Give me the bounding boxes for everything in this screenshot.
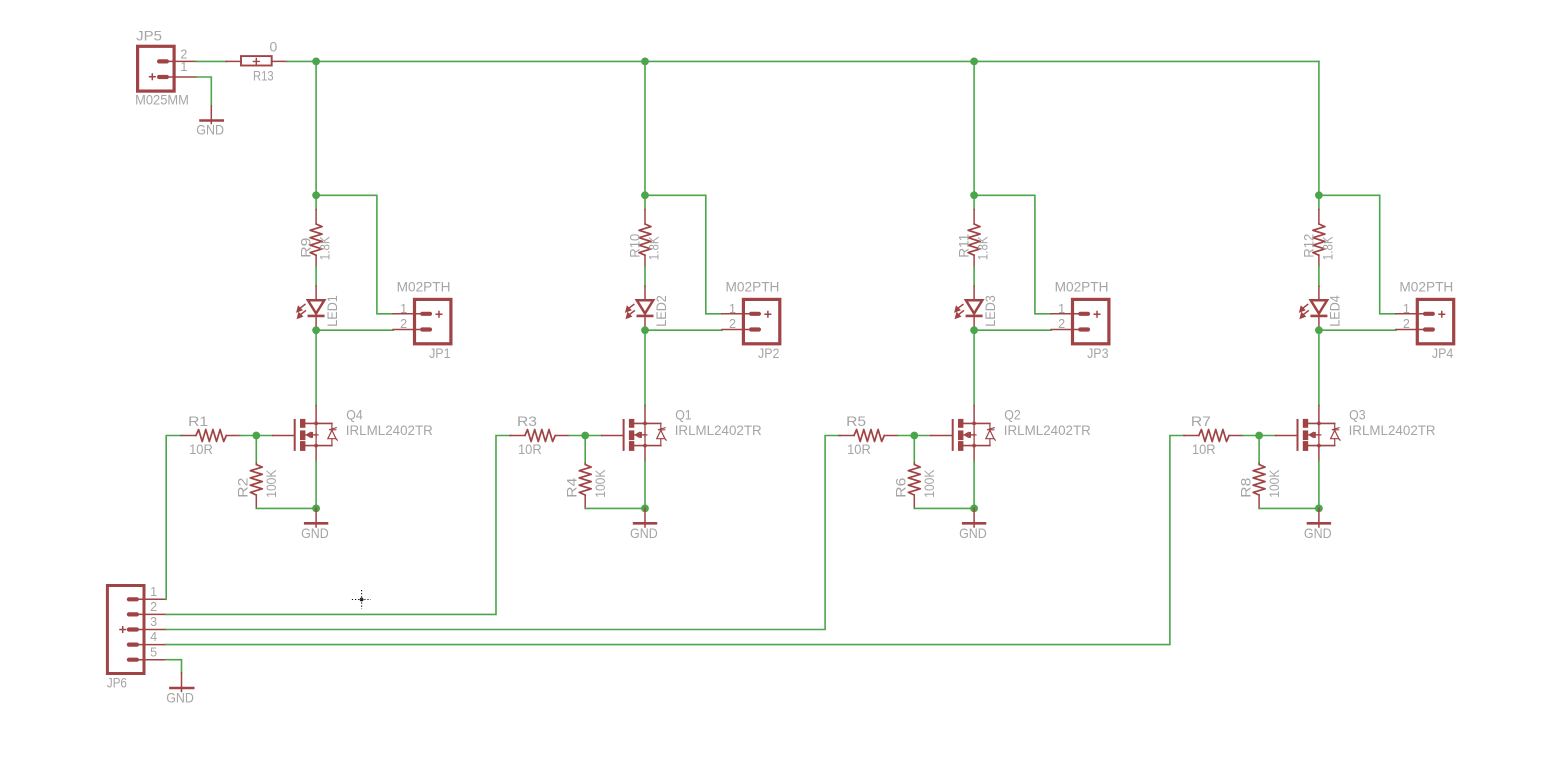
svg-text:2: 2	[150, 600, 157, 614]
svg-text:10R: 10R	[189, 441, 213, 457]
connector JP2 (M02PTH)	[722, 299, 780, 343]
wire R7 to gate node	[1243, 435, 1260, 437]
wire R11 to LED3	[973, 267, 975, 287]
wire R3 to gate node	[569, 435, 586, 437]
gate lead of Q3	[1276, 435, 1297, 437]
svg-text:2: 2	[180, 47, 187, 61]
wire JP6 pin4 to R7 (channel 4 gate net)	[166, 436, 1185, 645]
junction source/GND node of Q1	[641, 505, 649, 513]
svg-text:LED3: LED3	[982, 295, 998, 327]
ground symbol GND (Q3)	[1307, 522, 1331, 525]
wire LED3 cathode to Q2 drain	[973, 330, 975, 405]
drain lead of Q3	[1318, 406, 1320, 424]
wire R4 to source/GND node	[585, 507, 645, 509]
wire Q3 source to GND	[1318, 461, 1320, 508]
wire gate node down to R4	[584, 436, 586, 463]
svg-text:1: 1	[1058, 302, 1065, 316]
resistor R11 (1.8K)	[968, 210, 980, 267]
svg-text:R10: R10	[627, 234, 643, 258]
LED LED3	[955, 286, 983, 330]
resistor R1 (10R)	[181, 430, 240, 442]
resistor R6 (100K)	[908, 463, 920, 509]
svg-text:R1: R1	[188, 413, 208, 429]
svg-text:R9: R9	[298, 237, 314, 257]
svg-text:JP3: JP3	[1087, 345, 1109, 361]
wire Q2 source to GND	[973, 461, 975, 508]
svg-text:GND: GND	[196, 122, 224, 138]
wire JP6 pin2 to R3 (channel 2 gate net)	[166, 436, 511, 615]
svg-text:R4: R4	[563, 477, 579, 497]
wire gate node to Q1 gate	[585, 435, 602, 437]
resistor R12 (1.8K)	[1313, 210, 1325, 267]
svg-text:10R: 10R	[518, 441, 542, 457]
wire bus to R12 (channel LED4)	[1318, 61, 1320, 209]
drain lead of Q2	[973, 406, 975, 424]
svg-text:Q3: Q3	[1349, 406, 1366, 422]
junction on bus at LED3 channel	[970, 58, 978, 66]
GND lead under Q1	[644, 508, 646, 527]
junction node LED1 anode net	[312, 191, 320, 199]
ground symbol GND (Q4)	[304, 522, 328, 525]
resistor R13 leads	[226, 60, 240, 62]
source lead of Q2	[973, 446, 975, 461]
svg-text:2: 2	[400, 317, 407, 331]
svg-text:3: 3	[150, 615, 157, 629]
wire R8 to source/GND node	[1259, 507, 1319, 509]
svg-text:1.8K: 1.8K	[975, 236, 991, 260]
wire branch to JP1 pin1	[316, 195, 393, 313]
LED LED4	[1300, 286, 1328, 330]
transistor Q1 (IRLML2402TR)	[623, 419, 667, 451]
svg-text:GND: GND	[1304, 525, 1332, 541]
wire gate node down to R2	[255, 436, 257, 463]
resistor R2 (100K)	[250, 463, 262, 509]
GND lead under Q2	[973, 508, 975, 527]
LED LED1	[297, 286, 325, 330]
gate lead of Q4	[273, 435, 294, 437]
junction on bus at LED1 channel	[312, 58, 320, 66]
junction on bus at LED2 channel	[641, 58, 649, 66]
wire R5 to gate node	[898, 435, 915, 437]
GND lead under Q3	[1318, 508, 1320, 527]
svg-text:2: 2	[1403, 317, 1410, 331]
svg-text:JP4: JP4	[1432, 345, 1454, 361]
svg-text:2: 2	[729, 317, 736, 331]
svg-text:LED4: LED4	[1327, 295, 1343, 327]
svg-text:1: 1	[400, 302, 407, 316]
svg-text:R6: R6	[893, 477, 909, 497]
cursor crosshair	[352, 590, 371, 609]
wire R6 to source/GND node	[914, 507, 974, 509]
svg-text:M02PTH: M02PTH	[726, 279, 780, 295]
svg-text:R8: R8	[1237, 477, 1253, 497]
svg-text:GND: GND	[166, 690, 194, 706]
wire LED2 cathode to Q1 drain	[644, 330, 646, 405]
svg-text:JP1: JP1	[429, 345, 451, 361]
resistor R9 (1.8K)	[310, 210, 322, 267]
junction node LED4 anode net	[1315, 191, 1323, 199]
GND lead under JP5	[210, 106, 212, 124]
wire branch to JP2 pin1	[645, 195, 722, 313]
junction gate node of Q3	[1255, 432, 1263, 440]
connector JP5 (M025MM)	[138, 46, 197, 91]
wire branch to JP4 pin1	[1319, 195, 1396, 313]
svg-text:JP6: JP6	[107, 674, 127, 690]
svg-text:M02PTH: M02PTH	[397, 279, 451, 295]
svg-text:LED1: LED1	[324, 295, 340, 327]
junction node LED4 cathode net	[1315, 326, 1323, 334]
svg-text:Q4: Q4	[346, 406, 363, 422]
wire R12 to LED4	[1318, 267, 1320, 287]
svg-text:R7: R7	[1191, 413, 1211, 429]
connector JP1 (M02PTH)	[393, 299, 451, 343]
wire R1 to gate node	[240, 435, 256, 437]
transistor Q3 (IRLML2402TR)	[1297, 419, 1341, 451]
wire top power bus	[287, 60, 1319, 62]
svg-text:Q1: Q1	[675, 406, 692, 422]
svg-text:100K: 100K	[1266, 469, 1282, 498]
junction gate node of Q1	[581, 432, 589, 440]
ground symbol GND (JP5)	[199, 119, 224, 122]
ground symbol GND (Q2)	[962, 522, 986, 525]
junction source/GND node of Q4	[312, 505, 320, 513]
wire LED3 cathode to JP3 pin2	[974, 329, 1051, 331]
svg-text:IRLML2402TR: IRLML2402TR	[1349, 422, 1436, 438]
svg-text:1.8K: 1.8K	[317, 236, 333, 260]
wire bus to R10 (channel LED2)	[644, 61, 646, 209]
junction gate node of Q4	[252, 432, 260, 440]
junction node LED3 cathode net	[970, 326, 978, 334]
drain lead of Q4	[315, 406, 317, 424]
wire gate node to Q2 gate	[914, 435, 931, 437]
wire bus to R11 (channel LED3)	[973, 61, 975, 209]
transistor Q4 (IRLML2402TR)	[294, 419, 338, 451]
svg-text:100K: 100K	[263, 469, 279, 498]
svg-text:IRLML2402TR: IRLML2402TR	[675, 422, 762, 438]
wire gate node to Q4 gate	[256, 435, 273, 437]
wire JP6 pin5 to GND	[166, 660, 182, 673]
wire LED1 cathode to Q4 drain	[315, 330, 317, 405]
source lead of Q3	[1318, 446, 1320, 461]
svg-text:R11: R11	[956, 234, 972, 258]
svg-text:4: 4	[150, 630, 157, 644]
svg-text:R2: R2	[235, 477, 251, 497]
svg-text:0: 0	[270, 38, 278, 54]
wire gate node down to R8	[1258, 436, 1260, 463]
svg-text:100K: 100K	[921, 469, 937, 498]
wire bus to R9 (channel LED1)	[315, 61, 317, 209]
wire R10 to LED2	[644, 267, 646, 287]
svg-text:GND: GND	[301, 525, 329, 541]
source lead of Q1	[644, 446, 646, 461]
svg-text:100K: 100K	[592, 469, 608, 498]
connector JP6 (5-pin header)	[107, 586, 165, 674]
svg-text:R5: R5	[846, 413, 866, 429]
resistor R4 (100K)	[579, 463, 591, 509]
svg-text:GND: GND	[630, 525, 658, 541]
svg-text:GND: GND	[959, 525, 987, 541]
wire LED4 cathode to Q3 drain	[1318, 330, 1320, 405]
connector JP4 (M02PTH)	[1396, 299, 1454, 343]
source lead of Q4	[315, 446, 317, 461]
svg-text:JP5: JP5	[136, 28, 162, 44]
LED LED2	[626, 286, 654, 330]
resistor R5 (10R)	[839, 430, 898, 442]
svg-text:M02PTH: M02PTH	[1055, 279, 1109, 295]
svg-text:Q2: Q2	[1004, 406, 1021, 422]
junction source/GND node of Q3	[1315, 505, 1323, 513]
wire gate node down to R6	[913, 436, 915, 463]
GND lead under JP6	[181, 673, 183, 692]
junction gate node of Q2	[910, 432, 918, 440]
svg-text:10R: 10R	[847, 441, 871, 457]
wire LED1 cathode to JP1 pin2	[316, 329, 393, 331]
connector JP3 (M02PTH)	[1051, 299, 1109, 343]
svg-text:IRLML2402TR: IRLML2402TR	[1004, 422, 1091, 438]
wire JP5 pin1 to GND	[196, 77, 211, 106]
wire Q4 source to GND	[315, 461, 317, 508]
svg-text:1.8K: 1.8K	[646, 236, 662, 260]
svg-text:1: 1	[180, 60, 187, 74]
resistor R13 (0 ohm, box symbol)	[241, 56, 272, 65]
svg-text:2: 2	[1058, 317, 1065, 331]
wire JP6 pin3 to R5 (channel 3 gate net)	[166, 436, 840, 630]
wire R2 to source/GND node	[256, 507, 316, 509]
junction node LED1 cathode net	[312, 326, 320, 334]
wire R9 to LED1	[315, 267, 317, 287]
resistor R7 (10R)	[1184, 430, 1243, 442]
resistor R10 (1.8K)	[639, 210, 651, 267]
junction node LED3 anode net	[970, 191, 978, 199]
svg-text:10R: 10R	[1192, 441, 1216, 457]
wire JP6 pin1 to R1 (channel 1 gate net)	[166, 436, 181, 600]
wire LED2 cathode to JP2 pin2	[645, 329, 722, 331]
svg-text:R3: R3	[517, 413, 537, 429]
ground symbol GND (Q1)	[633, 522, 657, 525]
svg-text:M02PTH: M02PTH	[1399, 279, 1453, 295]
junction node LED2 cathode net	[641, 326, 649, 334]
wire LED4 cathode to JP4 pin2	[1319, 329, 1396, 331]
resistor R8 (100K)	[1253, 463, 1265, 509]
wire JP5 pin2 to R13	[196, 60, 226, 62]
junction node LED2 anode net	[641, 191, 649, 199]
svg-text:R12: R12	[1301, 234, 1317, 258]
wire Q1 source to GND	[644, 461, 646, 508]
svg-text:JP2: JP2	[758, 345, 780, 361]
svg-text:1: 1	[729, 302, 736, 316]
ground symbol GND (JP6)	[169, 687, 194, 690]
wire gate node to Q3 gate	[1259, 435, 1276, 437]
svg-text:1: 1	[150, 585, 157, 599]
gate lead of Q1	[602, 435, 623, 437]
drain lead of Q1	[644, 406, 646, 424]
svg-text:R13: R13	[253, 67, 274, 83]
transistor Q2 (IRLML2402TR)	[952, 419, 996, 451]
svg-text:5: 5	[150, 645, 157, 659]
junction source/GND node of Q2	[970, 505, 978, 513]
svg-text:M025MM: M025MM	[135, 92, 189, 108]
GND lead under Q4	[315, 508, 317, 527]
wire branch to JP3 pin1	[974, 195, 1051, 313]
svg-text:IRLML2402TR: IRLML2402TR	[346, 422, 433, 438]
gate lead of Q2	[931, 435, 952, 437]
resistor R3 (10R)	[510, 430, 569, 442]
svg-text:1.8K: 1.8K	[1320, 236, 1336, 260]
svg-text:1: 1	[1403, 302, 1410, 316]
svg-text:LED2: LED2	[653, 295, 669, 327]
